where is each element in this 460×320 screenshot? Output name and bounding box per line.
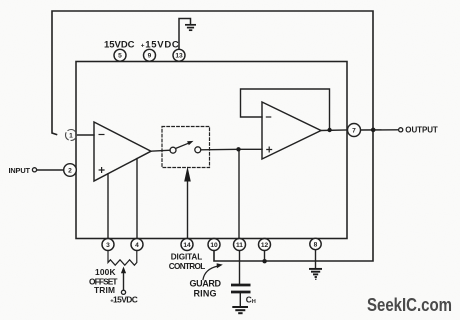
svg-text:+15VDC: +15VDC (110, 294, 138, 304)
svg-text:SeekIC.com: SeekIC.com (367, 295, 452, 315)
svg-text:100K: 100K (95, 267, 116, 277)
svg-text:8: 8 (314, 241, 318, 248)
svg-text:CONTROL: CONTROL (169, 262, 206, 271)
svg-text:1: 1 (69, 133, 73, 140)
svg-text:GUARD: GUARD (190, 278, 222, 288)
svg-text:INPUT: INPUT (9, 166, 31, 175)
svg-text:2: 2 (68, 167, 72, 174)
svg-text:5: 5 (118, 53, 122, 60)
svg-text:4: 4 (135, 242, 139, 249)
svg-text:10: 10 (210, 242, 218, 249)
svg-text:DIGITAL: DIGITAL (171, 252, 203, 261)
svg-text:12: 12 (261, 242, 269, 249)
svg-text:14: 14 (183, 242, 191, 249)
svg-text:13: 13 (175, 53, 183, 60)
svg-text:OUTPUT: OUTPUT (405, 125, 438, 134)
svg-text:7: 7 (352, 127, 356, 134)
svg-text:TRIM: TRIM (94, 285, 115, 295)
svg-text:11: 11 (236, 242, 243, 249)
svg-text:+15VDC: +15VDC (141, 39, 179, 50)
svg-text:15VDC: 15VDC (104, 39, 135, 50)
svg-text:3: 3 (106, 242, 110, 249)
svg-text:RING: RING (194, 288, 217, 298)
svg-text:9: 9 (148, 53, 152, 60)
